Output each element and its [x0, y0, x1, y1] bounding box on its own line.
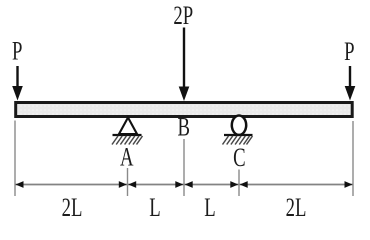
- svg-text:2P: 2P: [173, 1, 193, 30]
- svg-text:L: L: [204, 193, 215, 222]
- svg-text:2L: 2L: [62, 193, 83, 222]
- svg-text:P: P: [12, 37, 22, 66]
- svg-text:C: C: [233, 143, 245, 172]
- svg-text:A: A: [120, 143, 134, 172]
- svg-text:P: P: [344, 37, 354, 66]
- svg-text:B: B: [177, 113, 189, 142]
- svg-text:L: L: [149, 193, 160, 222]
- svg-text:2L: 2L: [286, 193, 307, 222]
